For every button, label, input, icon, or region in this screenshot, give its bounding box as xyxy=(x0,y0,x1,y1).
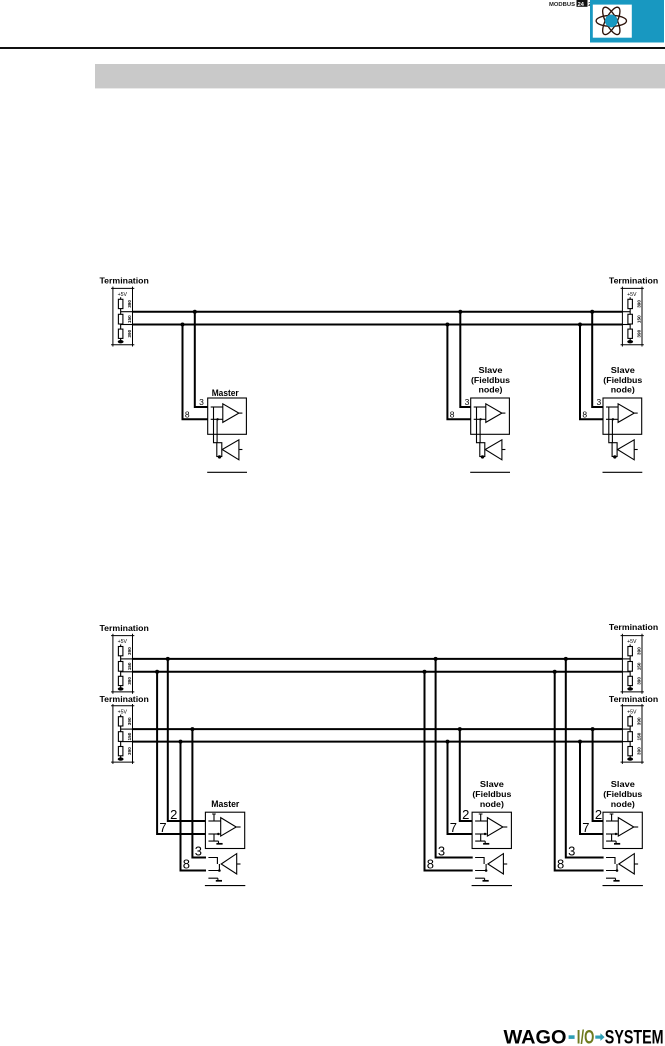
svg-text:3: 3 xyxy=(465,397,470,407)
wire R2 to bus tap B (TN3 upper-left d2) xyxy=(120,671,122,676)
wire pin7 drop from bus y=671.8 to Master M2 xyxy=(157,671,205,834)
wire +5V to R1 (TN2 right d1) xyxy=(629,297,631,299)
receiver input rectangle (Master M1) xyxy=(217,443,222,457)
receiver input rectangle (Slave S2) xyxy=(612,443,617,457)
svg-text:+5V: +5V xyxy=(118,639,128,645)
signal ground underline (Slave S2) xyxy=(603,471,643,473)
inner wire pin7 to driver (Slave S3) xyxy=(475,833,487,835)
svg-text:8: 8 xyxy=(582,409,587,419)
termination network TN5 lower-left d2 box frame xyxy=(111,704,134,764)
ground dot (TN2 right d1) xyxy=(627,340,633,343)
logo cyan square xyxy=(590,0,664,43)
bus wire line3 tap into right termination xyxy=(622,728,630,730)
wire pin7 drop from bus y=741.6 to Slave S3 xyxy=(448,741,473,834)
svg-text:390: 390 xyxy=(637,300,642,308)
svg-text:2: 2 xyxy=(462,807,469,822)
wire R3 to ground (TN2 right d1) xyxy=(629,338,631,340)
svg-text:Termination: Termination xyxy=(609,695,658,704)
resistor R1 390 (TN4 upper-right d2) xyxy=(628,647,633,656)
driver ground bar (Slave S3) xyxy=(483,843,489,845)
ground dot (TN1 left d1) xyxy=(118,340,124,343)
logo atom orbit ellipse 2 xyxy=(599,5,623,37)
wire V2 pin8 line down to receiver (Slave S1) xyxy=(479,419,481,442)
resistor R2 150 (TN1 left d1) xyxy=(118,314,123,324)
header caption highlight box xyxy=(577,0,588,8)
bus wire line1 (diagram2) xyxy=(133,658,623,660)
node label Slave S1 xyxy=(471,366,511,394)
bus wire line4 (diagram2) xyxy=(133,741,623,743)
svg-text:(Fieldbus: (Fieldbus xyxy=(471,376,511,385)
receiver amplifier triangle (Slave S3) xyxy=(488,854,504,874)
svg-text:Slave: Slave xyxy=(480,780,505,789)
wire R3 to ground (TN3 upper-left d2) xyxy=(120,686,122,688)
driver amplifier triangle (Slave S4) xyxy=(618,818,634,837)
svg-text:3: 3 xyxy=(195,844,202,859)
svg-text:Master: Master xyxy=(211,799,239,810)
wire V1 pin3 line down to receiver (Slave S2) xyxy=(609,407,612,443)
receiver output stub (Slave S4) xyxy=(634,863,638,865)
svg-text:390: 390 xyxy=(127,300,132,308)
bus wire line2 tap into right termination xyxy=(622,671,630,673)
svg-text:(Fieldbus: (Fieldbus xyxy=(603,376,643,385)
footer wordmark first hyphen (teal) xyxy=(569,1035,575,1039)
svg-text:8: 8 xyxy=(185,409,190,419)
wire R1 to bus tap A (TN4 upper-right d2) xyxy=(629,656,631,662)
junction dot receiver ground (Slave S1) xyxy=(481,455,484,458)
svg-text:390: 390 xyxy=(637,747,642,755)
junction dot bus line A / Slave S1 pin3 xyxy=(458,310,462,314)
wire pin2 drop from bus y=729.1 to Slave S4 xyxy=(593,728,603,821)
driver amplifier triangle (Master M2) xyxy=(221,818,237,837)
signal ground underline (Master M1) xyxy=(207,471,247,473)
logo white inner box xyxy=(593,5,632,38)
receiver input wire pin3 (Master M2) xyxy=(208,858,217,865)
svg-text:150: 150 xyxy=(127,315,132,323)
wire +5V to R1 (TN3 upper-left d2) xyxy=(120,644,122,646)
wire pin7 drop from bus y=741.6 to Slave S4 xyxy=(580,741,603,834)
driver amplifier triangle (Slave S2) xyxy=(618,404,634,423)
receiver amplifier triangle (Master M1) xyxy=(222,440,239,460)
receiver input wire pin8 (Slave S4) xyxy=(606,864,617,871)
signal ground underline (Slave S4) xyxy=(603,885,643,887)
svg-text:+5V: +5V xyxy=(118,292,128,298)
receiver output stub (Slave S1) xyxy=(502,449,506,451)
resistor R3 390 (TN6 lower-right d2) xyxy=(628,747,633,756)
bus wire line B tap into left termination xyxy=(121,324,133,326)
driver amplifier triangle (Slave S3) xyxy=(487,818,503,837)
driver amplifier triangle (Slave S1) xyxy=(486,404,502,423)
wire V2 pin8 line down to receiver (Master M1) xyxy=(216,419,218,442)
inner wire pin3 to driver input (Slave S2) xyxy=(606,406,618,408)
receiver ground bar (Slave S4) xyxy=(613,880,619,882)
svg-text:node): node) xyxy=(480,800,504,809)
wire V2 pin8 line down to receiver (Slave S2) xyxy=(611,419,613,442)
receiver amplifier triangle (Slave S1) xyxy=(485,440,502,460)
junction dot pin8 receiver (Slave S3) xyxy=(485,869,488,872)
resistor R2 150 (TN4 upper-right d2) xyxy=(628,662,633,672)
resistor R3 390 (TN2 right d1) xyxy=(628,329,633,338)
svg-text:390: 390 xyxy=(127,677,132,685)
receiver input wire pin3 (Slave S3) xyxy=(475,858,484,865)
wire pin3 drop from bus y=658.9 to Slave S4 xyxy=(566,658,604,858)
bus wire line2 tap into left termination xyxy=(121,671,133,673)
wire R2 to bus tap B (TN1 left d1) xyxy=(120,324,122,329)
driver output stub (Slave S4) xyxy=(634,826,638,828)
receiver output stub (Master M1) xyxy=(239,449,243,451)
driver output stub (Slave S2) xyxy=(634,412,638,414)
resistor R1 390 (TN5 lower-left d2) xyxy=(118,717,123,726)
receiver output stub (Master M2) xyxy=(237,863,241,865)
resistor R3 390 (TN3 upper-left d2) xyxy=(118,676,123,685)
resistor R2 150 (TN5 lower-left d2) xyxy=(118,732,123,742)
junction dot bus line B / Slave S1 pin8 xyxy=(445,323,449,327)
receiver amplifier triangle (Slave S4) xyxy=(619,854,635,874)
junction dot receiver ground (Slave S2) xyxy=(613,455,616,458)
receiver amplifier triangle (Master M2) xyxy=(221,854,237,874)
driver ground branch (Slave S3) xyxy=(475,834,485,843)
svg-text:I/O: I/O xyxy=(577,1027,595,1046)
receiver input wire pin8 (Master M2) xyxy=(208,864,219,871)
inner wire pin7 to driver (Slave S4) xyxy=(606,833,618,835)
svg-text:390: 390 xyxy=(637,329,642,337)
wire pin3 drop from bus line A to Master M1 xyxy=(195,311,208,407)
svg-text:+5V: +5V xyxy=(627,292,637,298)
svg-text:24: 24 xyxy=(578,2,585,8)
inner wire pin8 to driver input (Slave S2) xyxy=(606,418,618,420)
resistor R1 390 (TN3 upper-left d2) xyxy=(118,647,123,656)
wire pin2 drop from bus y=729.1 to Slave S3 xyxy=(460,728,472,821)
ground dot (TN3 upper-left d2) xyxy=(118,687,124,690)
termination network TN1 left d1 box frame xyxy=(111,287,134,347)
logo atom orbit ellipse 1 xyxy=(596,15,626,26)
logo atom orbit ellipse 3 xyxy=(599,5,623,37)
ground dot (TN5 lower-left d2) xyxy=(118,757,124,760)
receiver input wire pin3 (Slave S4) xyxy=(606,858,615,865)
signal ground underline (Slave S1) xyxy=(470,471,510,473)
svg-text:150: 150 xyxy=(637,732,642,740)
svg-text:7: 7 xyxy=(450,820,457,835)
receiver input rectangle (Slave S1) xyxy=(480,443,485,457)
inner wire pin3 to driver input (Slave S1) xyxy=(474,406,486,408)
resistor R1 390 (TN6 lower-right d2) xyxy=(628,717,633,726)
bus wire line4 tap into left termination xyxy=(121,741,133,743)
resistor R3 390 (TN5 lower-left d2) xyxy=(118,747,123,756)
svg-text:Slave: Slave xyxy=(479,366,504,375)
wire pin8 drop from bus line B to Master M1 xyxy=(183,324,208,420)
junction dot bus / Master M2 pin3 xyxy=(190,727,194,731)
junction dot bus line A / Master M1 pin3 xyxy=(193,310,197,314)
junction dot bus line B / Slave S2 pin8 xyxy=(578,323,582,327)
inner wire pin2 to driver (Master M2) xyxy=(208,820,220,822)
node label Slave S3 xyxy=(472,780,512,809)
wire R3 to ground (TN5 lower-left d2) xyxy=(120,756,122,758)
svg-text:Termination: Termination xyxy=(609,623,658,632)
svg-text:Termination: Termination xyxy=(100,277,149,286)
receiver output stub (Slave S3) xyxy=(503,863,507,865)
wire R1 to bus tap A (TN6 lower-right d2) xyxy=(629,726,631,732)
svg-text:8: 8 xyxy=(183,857,190,872)
receiver ground branch (Master M2) xyxy=(208,878,218,880)
junction dot bus line B / Master M1 pin8 xyxy=(181,323,185,327)
node box Slave S4 xyxy=(603,812,642,848)
junction dot pin8 V2 (Master M1) xyxy=(216,418,218,420)
inner wire pin8 to driver input (Master M1) xyxy=(211,418,223,420)
driver ground bar (Slave S4) xyxy=(614,843,620,845)
driver output stub (Slave S1) xyxy=(502,412,506,414)
driver output stub (Master M2) xyxy=(236,826,240,828)
resistor R2 150 (TN3 upper-left d2) xyxy=(118,662,123,672)
logo atom nucleus xyxy=(605,15,618,28)
bus wire line A tap into left termination xyxy=(121,311,133,313)
wire pin8 drop from bus y=671.8 to Slave S3 xyxy=(425,671,473,871)
resistor R2 150 (TN6 lower-right d2) xyxy=(628,732,633,742)
wire V1 pin3 line down to receiver (Slave S1) xyxy=(477,407,480,443)
wire R1 to bus tap A (TN2 right d1) xyxy=(629,309,631,315)
bus wire line3 tap into left termination xyxy=(121,728,133,730)
svg-text:3: 3 xyxy=(438,844,445,859)
wire V1 pin3 line down to receiver (Master M1) xyxy=(214,407,217,443)
wire R3 to ground (TN6 lower-right d2) xyxy=(629,756,631,758)
wire R2 to bus tap B (TN2 right d1) xyxy=(629,324,631,329)
svg-text:150: 150 xyxy=(127,662,132,670)
svg-text:2: 2 xyxy=(170,807,177,822)
node box Slave S3 xyxy=(472,812,511,848)
bus wire line B (diagram1 lower) xyxy=(133,324,623,326)
svg-text:390: 390 xyxy=(127,717,132,725)
svg-text:3: 3 xyxy=(597,397,602,407)
wire R3 to ground (TN4 upper-right d2) xyxy=(629,686,631,688)
inner wire pin2 to driver (Slave S4) xyxy=(606,820,618,822)
junction dot pin7 (Slave S4) xyxy=(615,833,617,835)
bus wire line B tap into right termination xyxy=(622,324,630,326)
svg-text:390: 390 xyxy=(127,329,132,337)
inner wire pin2 to driver (Slave S3) xyxy=(475,820,487,822)
ground dot (TN4 upper-right d2) xyxy=(627,687,633,690)
wire +5V to R1 (TN5 lower-left d2) xyxy=(120,715,122,717)
svg-text:2: 2 xyxy=(595,807,602,822)
termination network TN3 upper-left d2 box frame xyxy=(111,634,134,694)
svg-text:390: 390 xyxy=(637,717,642,725)
wire R2 to bus tap B (TN6 lower-right d2) xyxy=(629,741,631,746)
pin2 enable tick (Slave S3) xyxy=(479,814,483,821)
node box Master M1 xyxy=(208,398,247,434)
wire pin3 drop from bus y=729.1 to Master M2 xyxy=(192,728,206,857)
wire pin3 drop from bus y=658.9 to Slave S3 xyxy=(436,658,473,858)
junction dot pin8 V2 (Slave S2) xyxy=(612,418,614,420)
node label Slave S4 xyxy=(603,780,643,809)
receiver output stub (Slave S2) xyxy=(634,449,638,451)
wire pin8 drop from bus line B to Slave S1 xyxy=(447,324,470,420)
svg-text:WAGO: WAGO xyxy=(504,1027,567,1046)
driver ground bar (Master M2) xyxy=(216,843,222,845)
junction dot bus / Master M2 pin7 xyxy=(155,670,159,674)
driver output stub (Master M1) xyxy=(239,412,243,414)
junction dot bus / Slave S3 pin7 xyxy=(446,740,450,744)
junction dot bus / Master M2 pin8 xyxy=(179,740,183,744)
receiver input wire pin8 (Slave S3) xyxy=(475,864,486,871)
wire +5V to R1 (TN4 upper-right d2) xyxy=(629,644,631,646)
svg-text:(Fieldbus: (Fieldbus xyxy=(603,790,643,799)
svg-text:MODBUS: MODBUS xyxy=(549,2,575,8)
receiver ground branch (Slave S4) xyxy=(606,878,616,880)
termination network TN4 upper-right d2 box frame xyxy=(621,634,644,694)
junction dot pin7 (Master M2) xyxy=(217,833,219,835)
junction dot bus / Master M2 pin2 xyxy=(166,657,170,661)
svg-text:3: 3 xyxy=(199,397,204,407)
bus wire line4 tap into right termination xyxy=(622,741,630,743)
wire R3 to ground (TN1 left d1) xyxy=(120,338,122,340)
svg-text:node): node) xyxy=(479,385,503,394)
svg-text:Termination: Termination xyxy=(100,695,149,704)
bus wire line A (diagram1 upper) xyxy=(133,311,623,313)
driver ground branch (Master M2) xyxy=(209,834,219,843)
signal ground underline (Master M2) xyxy=(205,885,245,887)
wire pin3 drop from bus line A to Slave S1 xyxy=(460,311,470,407)
footer wordmark arrow (teal) xyxy=(595,1033,604,1041)
svg-text:390: 390 xyxy=(637,677,642,685)
ground dot (TN6 lower-right d2) xyxy=(627,757,633,760)
svg-text:150: 150 xyxy=(637,315,642,323)
receiver ground bar (Master M2) xyxy=(216,880,222,882)
svg-text:3: 3 xyxy=(568,844,575,859)
wire pin3 drop from bus line A to Slave S2 xyxy=(592,311,603,407)
driver amplifier triangle (Master M1) xyxy=(223,404,239,423)
signal ground underline (Slave S3) xyxy=(472,885,512,887)
svg-text:Slave: Slave xyxy=(611,780,636,789)
svg-text:8: 8 xyxy=(427,857,434,872)
termination network TN6 lower-right d2 box frame xyxy=(621,704,644,764)
resistor R3 390 (TN1 left d1) xyxy=(118,329,123,338)
svg-text:node): node) xyxy=(611,800,635,809)
wire +5V to R1 (TN6 lower-right d2) xyxy=(629,715,631,717)
svg-text:150: 150 xyxy=(127,732,132,740)
svg-text:7: 7 xyxy=(582,820,589,835)
svg-text:7: 7 xyxy=(159,820,166,835)
junction dot bus / Slave S4 pin2 xyxy=(591,727,595,731)
inner wire pin8 to driver input (Slave S1) xyxy=(474,418,486,420)
junction dot pin8 receiver (Slave S4) xyxy=(616,869,619,872)
wire pin8 drop from bus line B to Slave S2 xyxy=(580,324,603,420)
pin2 enable tick (Master M2) xyxy=(212,814,216,821)
junction dot bus / Slave S3 pin8 xyxy=(423,670,427,674)
wire +5V to R1 (TN1 left d1) xyxy=(120,297,122,299)
svg-text:(Fieldbus: (Fieldbus xyxy=(472,790,512,799)
junction dot bus / Slave S4 pin7 xyxy=(578,740,582,744)
inner wire pin3 to driver input (Master M1) xyxy=(211,406,223,408)
junction dot pin7 (Slave S3) xyxy=(484,833,486,835)
svg-text:+5V: +5V xyxy=(118,709,128,715)
resistor R1 390 (TN2 right d1) xyxy=(628,299,633,308)
node box Slave S1 xyxy=(471,398,510,434)
pin2 enable tick (Slave S4) xyxy=(610,814,614,821)
svg-text:390: 390 xyxy=(637,647,642,655)
wire pin8 drop from bus y=741.6 to Master M2 xyxy=(181,741,207,871)
svg-text:150: 150 xyxy=(637,662,642,670)
node box Slave S2 xyxy=(603,398,642,434)
bus wire line3 (diagram2) xyxy=(133,728,623,730)
node label Slave S2 xyxy=(603,366,643,394)
svg-text:SYSTEM: SYSTEM xyxy=(605,1027,664,1046)
driver ground branch (Slave S4) xyxy=(606,834,616,843)
junction dot receiver ground (Master M1) xyxy=(218,455,221,458)
svg-text:node): node) xyxy=(611,385,635,394)
wire R1 to bus tap A (TN3 upper-left d2) xyxy=(120,656,122,662)
svg-text:Slave: Slave xyxy=(611,366,636,375)
svg-text:390: 390 xyxy=(127,647,132,655)
driver output stub (Slave S3) xyxy=(503,826,507,828)
junction dot pin8 V2 (Slave S1) xyxy=(479,418,481,420)
junction dot bus line A / Slave S2 pin3 xyxy=(590,310,594,314)
resistor R2 150 (TN2 right d1) xyxy=(628,314,633,324)
bus wire line2 (diagram2) xyxy=(133,671,623,673)
wire R2 to bus tap B (TN5 lower-left d2) xyxy=(120,741,122,746)
receiver ground branch (Slave S3) xyxy=(475,878,485,880)
junction dot bus / Slave S3 pin3 xyxy=(434,657,438,661)
resistor R1 390 (TN1 left d1) xyxy=(118,299,123,308)
junction dot bus / Slave S3 pin2 xyxy=(458,727,462,731)
receiver ground bar (Slave S3) xyxy=(483,880,489,882)
svg-text:+5V: +5V xyxy=(627,709,637,715)
chapter title gray bar xyxy=(95,64,665,88)
bus wire line1 tap into left termination xyxy=(121,658,133,660)
junction dot pin8 receiver (Master M2) xyxy=(218,869,221,872)
inner wire pin7 to driver (Master M2) xyxy=(208,833,220,835)
svg-text:Termination: Termination xyxy=(100,624,149,633)
wire R1 to bus tap A (TN5 lower-left d2) xyxy=(120,726,122,732)
wire R2 to bus tap B (TN4 upper-right d2) xyxy=(629,671,631,676)
svg-text:8: 8 xyxy=(557,857,564,872)
junction dot bus / Slave S4 pin3 xyxy=(564,657,568,661)
svg-text:390: 390 xyxy=(127,747,132,755)
resistor R3 390 (TN4 upper-right d2) xyxy=(628,676,633,685)
termination network TN2 right d1 box frame xyxy=(621,287,644,347)
svg-text:+5V: +5V xyxy=(627,639,637,645)
svg-text:8: 8 xyxy=(450,409,455,419)
svg-text:Termination: Termination xyxy=(609,277,658,286)
bus wire line A tap into right termination xyxy=(622,311,630,313)
wire R1 to bus tap A (TN1 left d1) xyxy=(120,309,122,315)
node box Master M2 xyxy=(205,812,244,848)
wire pin8 drop from bus y=671.8 to Slave S4 xyxy=(555,671,604,871)
receiver amplifier triangle (Slave S2) xyxy=(618,440,635,460)
bus wire line1 tap into right termination xyxy=(622,658,630,660)
header horizontal rule xyxy=(0,47,665,49)
wire pin2 drop from bus y=658.9 to Master M2 xyxy=(168,658,206,821)
junction dot bus / Slave S4 pin8 xyxy=(553,670,557,674)
